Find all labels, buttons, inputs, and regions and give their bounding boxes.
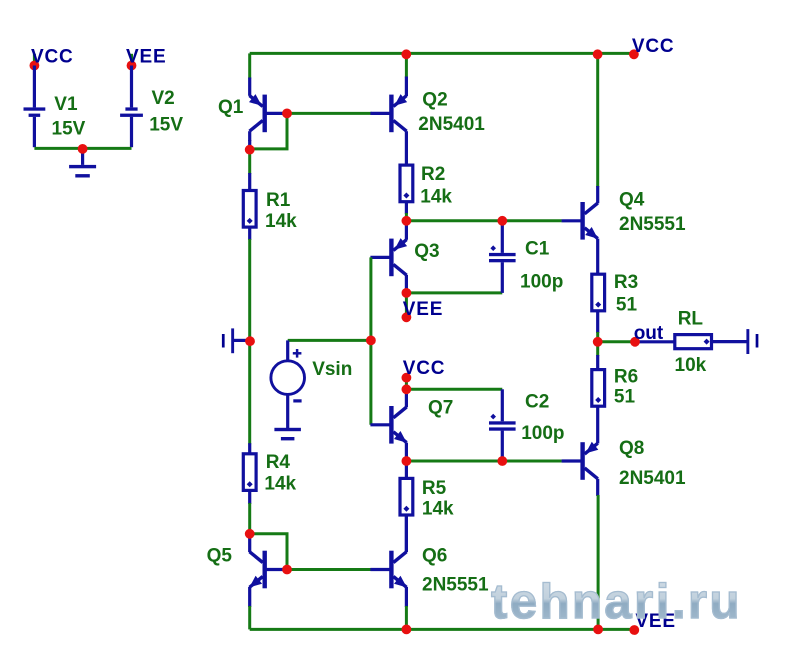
node input [245,336,255,346]
svg-text:VEE: VEE [403,299,443,320]
battery V1 15V [24,66,86,148]
resistor RL 10k [635,309,747,376]
wire Q7 emitter row to Q8 base [406,460,561,463]
svg-text:VCC: VCC [403,358,446,379]
svg-text:2N5401: 2N5401 [418,114,485,135]
capacitor C1 100p [489,221,563,293]
terminal output [746,329,759,354]
node Q1 base [282,109,292,119]
wire Q5 emitter to rail [248,606,251,629]
wire Q2 emitter stub [405,54,408,77]
node Q3 collector [402,288,412,298]
wire input column [248,340,251,444]
node Q7 collector [402,384,412,394]
wire Q1 base to Q2 base [287,112,372,115]
wire VCC top rail [250,52,635,55]
svg-text:Q3: Q3 [414,241,439,262]
terminal input [221,328,248,353]
wire R4 to Q5 [248,503,251,534]
wire VCC rail to Q4 [596,53,599,187]
resistor R1 14k [243,150,297,240]
node C1 top [497,216,507,226]
node rail/Q6 [402,625,412,635]
svg-text:2N5551: 2N5551 [619,214,686,235]
node Q5 base [282,565,292,575]
capacitor C2 100p [489,389,565,461]
svg-text:100p: 100p [521,423,564,444]
wire R2 to node A [405,213,408,221]
svg-text:10k: 10k [675,355,707,376]
svg-text:out: out [634,323,664,344]
svg-text:Q4: Q4 [619,189,645,210]
wire R3 to out node [596,332,599,342]
resistor R4 14k [243,443,296,504]
node Q1 collector [245,145,255,155]
svg-text:Q7: Q7 [428,398,453,419]
node A (R2/C1/Q3e) [402,216,412,226]
svg-text:15V: 15V [52,119,86,140]
wire out to R6 [596,342,599,356]
wire Q5 base-collector tie [250,534,287,570]
wire Q3 collector to C1 bottom [406,291,502,294]
wire VEE bottom rail [250,628,635,631]
wire battery commons [34,147,131,150]
wire Q5 base to Q6 base [287,568,372,571]
svg-text:R6: R6 [614,367,638,388]
svg-text:Q5: Q5 [207,546,233,567]
wire Q1 base-collector tie [250,113,287,148]
svg-text:C2: C2 [525,391,549,412]
wire node A to Q4 base [406,219,561,222]
svg-text:14k: 14k [265,211,297,232]
wire Q8 collector to rail [597,495,600,629]
svg-text:15V: 15V [149,115,183,136]
svg-text:V1: V1 [54,94,78,115]
svg-text:R1: R1 [266,190,291,211]
wire Q6 emitter to rail [405,606,408,629]
node battery ground junction [78,144,88,154]
svg-text:RL: RL [678,309,704,330]
svg-text:I: I [221,332,226,353]
svg-text:C1: C1 [525,239,550,260]
transistor Q8 (PNP 2N5401) [562,438,686,496]
node Vsin junction [366,336,376,346]
svg-text:14k: 14k [264,473,296,494]
ground (supplies) [69,149,96,178]
svg-text:VCC: VCC [632,36,675,57]
ground (Vsin) [274,394,301,440]
svg-text:R3: R3 [614,272,638,293]
transistor Q4 (NPN 2N5551) [562,186,686,274]
resistor R3 51 [592,272,638,333]
node C2 bottom [497,456,507,466]
svg-text:Vsin: Vsin [312,359,352,380]
node rail/Q8 [593,625,603,635]
resistor R5 14k [400,461,454,552]
svg-text:51: 51 [616,295,638,316]
power flag VCC (top right) [629,36,674,59]
svg-text:Q2: Q2 [422,90,447,111]
transistor Q5 (NPN) [207,534,286,607]
node out [593,337,603,347]
wire Q1 emitter drop [248,53,251,78]
resistor R2 14k [400,164,452,214]
resistor R6 51 [592,355,638,443]
power flag VEE (Q3 collector) [402,293,444,322]
wire Q7 collector to C2 top [406,388,502,391]
svg-text:R5: R5 [422,478,447,499]
svg-text:Q8: Q8 [619,438,644,459]
svg-text:2N5551: 2N5551 [422,575,489,596]
wire R1 to input node [248,239,251,340]
svg-text:I: I [754,331,759,352]
svg-text:14k: 14k [420,186,452,207]
node out label [630,323,664,347]
svg-text:2N5401: 2N5401 [619,468,686,489]
transistor Q7 (NPN) [370,389,453,461]
svg-text:14k: 14k [422,499,454,520]
svg-text:V2: V2 [152,88,175,109]
node top rail / Q4 branch [593,49,603,59]
svg-text:R4: R4 [266,452,291,473]
wire Q7 base vertical [369,340,372,424]
svg-text:100p: 100p [520,271,563,292]
source Vsin [271,340,352,401]
watermark tehnari.ru [491,578,742,627]
svg-text:VEE: VEE [126,46,166,67]
svg-text:R2: R2 [421,164,445,185]
power flag VEE (V2 top) [126,46,166,70]
power flag VEE (bottom) [629,611,675,635]
node Q5 collector [245,529,255,539]
wire Vsin to bases [288,339,371,342]
wire Q3 base vertical [369,257,372,340]
transistor Q6 (NPN 2N5551) [370,515,489,607]
node Q7 emitter [402,456,412,466]
svg-text:Q6: Q6 [422,546,447,567]
transistor Q1 (PNP) [218,78,286,150]
power flag VCC (V1 positive) [30,46,74,70]
svg-text:51: 51 [614,387,636,408]
transistor Q3 (PNP) [370,221,439,293]
power flag VCC (Q7 collector) [402,358,446,390]
battery V2 15V [120,66,183,148]
node top rail / Q2 emitter [401,49,411,59]
svg-text:VCC: VCC [31,46,74,67]
svg-text:Q1: Q1 [218,97,244,118]
wire out [598,340,635,343]
transistor Q2 (PNP 2N5401) [370,77,485,166]
